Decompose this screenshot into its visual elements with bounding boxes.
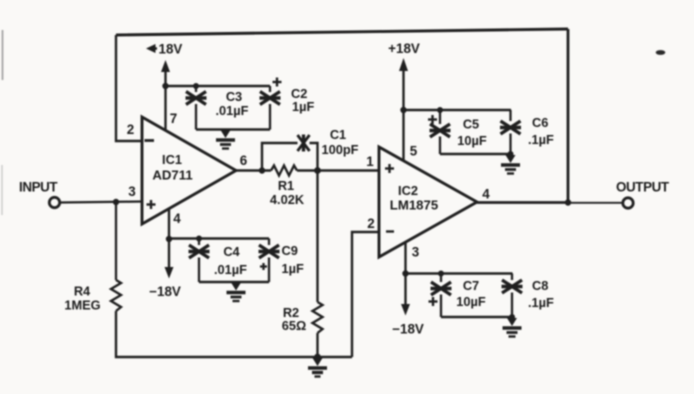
svg-text:5: 5 bbox=[410, 144, 418, 159]
pin 3 label bbox=[412, 245, 419, 260]
svg-text:R4: R4 bbox=[74, 284, 91, 299]
wire IC2 neg supply to C7 C8 tops bbox=[406, 272, 513, 274]
op-amp IC1 AD711 bbox=[142, 117, 236, 224]
op-amp IC2 LM1875 bbox=[379, 147, 477, 257]
svg-text:C4: C4 bbox=[223, 244, 240, 259]
svg-text:−18V: −18V bbox=[392, 322, 424, 337]
ground below C3 C2 bbox=[216, 130, 235, 149]
wire bottom rail riser to IC2 pin 2 bbox=[352, 232, 379, 357]
node C6 bottom bbox=[508, 151, 514, 157]
wire supply to C3 C2 tops bbox=[166, 85, 271, 87]
ground below C4 C9 bbox=[227, 283, 246, 302]
wire IC1 output to R1 bbox=[236, 169, 271, 171]
svg-text:.01µF: .01µF bbox=[216, 103, 249, 118]
wire left feedback drop to IC1 pin 2 bbox=[116, 35, 142, 141]
pin 3 label bbox=[128, 184, 135, 199]
svg-text:4: 4 bbox=[482, 187, 490, 202]
capacitor C2 1uF bbox=[260, 78, 315, 130]
svg-text:4.02K: 4.02K bbox=[270, 192, 305, 207]
ground below R2 bbox=[308, 358, 327, 377]
wire R1 to IC2 pin 1 bbox=[297, 169, 379, 171]
svg-text:.1µF: .1µF bbox=[528, 132, 554, 147]
svg-text:65Ω: 65Ω bbox=[282, 318, 307, 333]
svg-text:OUTPUT: OUTPUT bbox=[616, 180, 670, 195]
svg-text:R1: R1 bbox=[278, 178, 294, 193]
svg-text:C6: C6 bbox=[532, 115, 548, 130]
svg-text:7: 7 bbox=[170, 111, 177, 126]
svg-text:2: 2 bbox=[127, 122, 134, 137]
node IC2 supply junction bbox=[400, 107, 406, 113]
wire input to IC1 pin 3 bbox=[60, 202, 142, 203]
svg-text:1MEG: 1MEG bbox=[64, 298, 100, 313]
node C4 top bbox=[196, 236, 202, 242]
svg-text:18V: 18V bbox=[159, 42, 183, 57]
wire C3 C2 bottoms bbox=[196, 128, 270, 130]
svg-text:100pF: 100pF bbox=[322, 142, 359, 157]
svg-text:3: 3 bbox=[128, 184, 135, 199]
node bottom rail R2 bbox=[314, 354, 321, 361]
capacitor C6 .1uF bbox=[500, 110, 554, 154]
capacitor C7 10uF bbox=[429, 274, 486, 318]
capacitor C3 .01uF bbox=[186, 86, 249, 130]
wire C4 C9 bottoms bbox=[199, 281, 269, 283]
svg-text:IC2: IC2 bbox=[398, 183, 418, 198]
wire C7 C8 bottoms bbox=[441, 316, 512, 318]
node output junction bbox=[565, 199, 571, 205]
svg-text:4: 4 bbox=[173, 211, 181, 226]
pin 6 label bbox=[240, 153, 247, 168]
svg-text:1: 1 bbox=[366, 154, 374, 169]
pin 4 label bbox=[482, 187, 490, 202]
OUTPUT terminal bbox=[616, 180, 670, 209]
node IC1 supply junction bbox=[162, 83, 168, 89]
pin 4 label bbox=[173, 211, 181, 226]
capacitor C9 1uF bbox=[259, 239, 304, 283]
pin 1 label bbox=[366, 154, 374, 169]
svg-text:LM1875: LM1875 bbox=[390, 198, 438, 213]
power +18V IC2 arrow bbox=[388, 41, 420, 161]
power +18V IC1 arrow bbox=[146, 42, 182, 132]
node IC2 neg supply junction bbox=[402, 270, 408, 276]
svg-text:−18V: −18V bbox=[149, 284, 181, 299]
wire C5 C6 bottoms bbox=[440, 153, 511, 155]
node C8 bottom bbox=[509, 314, 515, 320]
ground below C7 C8 bbox=[503, 318, 522, 337]
wire R2 to bottom rail bbox=[316, 333, 318, 357]
svg-text:C3: C3 bbox=[226, 89, 242, 104]
svg-text:C1: C1 bbox=[330, 127, 346, 142]
wire IC1 pin 4 bbox=[168, 209, 170, 240]
svg-text:C7: C7 bbox=[463, 278, 479, 293]
svg-text:AD711: AD711 bbox=[152, 168, 192, 183]
capacitor C4 .01uF bbox=[189, 239, 248, 283]
svg-text:10µF: 10µF bbox=[457, 133, 487, 148]
power -18V IC1 arrow bbox=[149, 239, 181, 299]
svg-text:6: 6 bbox=[240, 153, 247, 168]
svg-text:C5: C5 bbox=[463, 117, 479, 132]
pin 2 label bbox=[367, 216, 374, 231]
svg-text:3: 3 bbox=[412, 245, 419, 260]
INPUT terminal bbox=[19, 180, 60, 208]
node C1 left bbox=[259, 167, 265, 173]
node C3 top bbox=[193, 83, 199, 89]
stray mark dash top right bbox=[656, 50, 666, 55]
pin 7 label bbox=[170, 111, 177, 126]
ground below C5 C6 bbox=[501, 155, 520, 174]
pin 2 label bbox=[127, 122, 134, 137]
wire IC2 pin 3 bbox=[404, 242, 406, 274]
wire R2 upper lead bbox=[316, 171, 318, 303]
svg-text:C8: C8 bbox=[532, 278, 548, 293]
svg-text:1µF: 1µF bbox=[282, 261, 304, 276]
capacitor C5 10uF bbox=[428, 110, 487, 154]
resistor R2 65ohm bbox=[282, 302, 323, 333]
svg-text:10µF: 10µF bbox=[456, 294, 486, 309]
wire supply to C5 C6 tops bbox=[404, 109, 512, 111]
wire right feedback drop to output node bbox=[567, 29, 570, 203]
svg-text:2: 2 bbox=[367, 216, 374, 231]
stray mark left edge bbox=[1, 30, 4, 215]
wire top feedback rail bbox=[116, 29, 568, 35]
svg-text:.01µF: .01µF bbox=[214, 262, 247, 277]
node IC1 neg supply junction bbox=[166, 236, 172, 242]
svg-text:IC1: IC1 bbox=[162, 152, 182, 167]
resistor R1 4.02K bbox=[270, 166, 305, 208]
node input / R4 junction bbox=[113, 199, 119, 205]
svg-text:+18V: +18V bbox=[388, 41, 420, 56]
capacitor C8 .1uF bbox=[502, 274, 555, 318]
power -18V IC2 arrow bbox=[392, 274, 424, 337]
wire R4 to bottom rail bbox=[116, 311, 352, 357]
capacitor C1 100pF feedback bbox=[262, 127, 359, 171]
svg-text:C9: C9 bbox=[282, 243, 298, 258]
node C5 top bbox=[437, 107, 443, 113]
node R1 C1 R2 junction bbox=[314, 167, 321, 174]
svg-text:.1µF: .1µF bbox=[528, 295, 554, 310]
wire R4 upper lead bbox=[115, 202, 117, 280]
wire IC1 neg supply to C4 C9 tops bbox=[169, 237, 269, 239]
wire IC2 output bbox=[477, 201, 622, 204]
svg-text:INPUT: INPUT bbox=[19, 180, 58, 195]
resistor R4 bbox=[64, 280, 121, 313]
node C7 top bbox=[438, 271, 444, 277]
pin 5 label bbox=[410, 144, 418, 159]
svg-text:1µF: 1µF bbox=[292, 99, 314, 114]
